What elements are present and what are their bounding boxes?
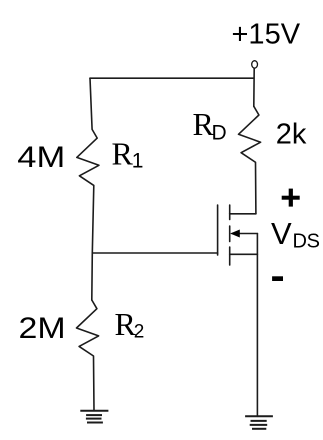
ground symbol right [245, 416, 273, 429]
wire drain tap [230, 213, 256, 215]
wire gate node to R2 [91, 253, 94, 300]
plus sign of VDS [282, 189, 300, 207]
transistor M1 channel body segment [229, 226, 231, 242]
transistor M1 gate plate [217, 205, 219, 255]
svg-text:DS: DS [293, 231, 320, 253]
supply terminal circle [252, 61, 258, 68]
svg-text:4M: 4M [17, 140, 65, 173]
svg-text:2k: 2k [276, 119, 307, 151]
svg-text:D: D [212, 121, 227, 144]
wire gate [92, 252, 217, 254]
wire source to ground [256, 234, 258, 417]
svg-text:1: 1 [132, 150, 144, 173]
svg-text:R: R [112, 136, 134, 172]
svg-text:V: V [271, 216, 292, 251]
supply terminal lead [253, 69, 255, 107]
transistor M1 channel source segment [229, 247, 231, 265]
svg-text:+15V: +15V [232, 19, 301, 51]
transistor M1 body arrow [230, 230, 240, 238]
minus sign of VDS [272, 276, 283, 281]
transistor M1 channel drain segment [229, 205, 231, 220]
wire source tap [230, 253, 258, 255]
svg-text:2: 2 [134, 322, 145, 343]
resistor R1 with leads [77, 78, 99, 253]
svg-text:2M: 2M [19, 311, 66, 344]
wire top rail from R1 to +15V node [90, 77, 254, 79]
wire body terminal [232, 233, 257, 235]
resistor R2 with bottom lead [77, 300, 99, 411]
resistor RD with bottom lead [239, 106, 261, 214]
ground symbol left [80, 411, 108, 423]
